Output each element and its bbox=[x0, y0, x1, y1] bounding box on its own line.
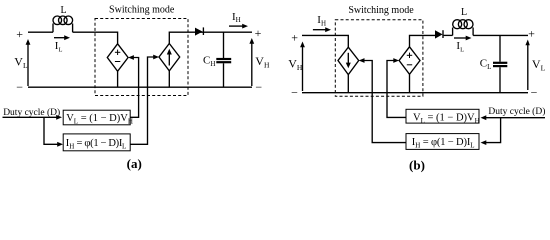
svg-text:(a): (a) bbox=[127, 156, 142, 171]
capacitor CL (b) bbox=[499, 35, 501, 61]
duty cycle feed wire (a) bbox=[3, 116, 59, 118]
svg-text:+: + bbox=[528, 26, 535, 40]
svg-text:VL: VL bbox=[532, 57, 546, 73]
capacitor CH (a) bbox=[223, 32, 225, 58]
svg-text:VH: VH bbox=[288, 56, 303, 72]
dependent current source F2 (b) bbox=[338, 47, 359, 74]
svg-text:L: L bbox=[461, 7, 467, 18]
arrow IL (a) bbox=[54, 37, 67, 39]
svg-text:Switching mode: Switching mode bbox=[109, 5, 175, 16]
wire: inductor to diamond E1 top corner bbox=[73, 32, 118, 44]
dependent voltage source E2 (b) bbox=[399, 47, 420, 75]
svg-text:IL: IL bbox=[456, 40, 464, 53]
svg-text:Duty cycle (D): Duty cycle (D) bbox=[3, 107, 60, 118]
wire: (b) top-left rail to diamond F2 bbox=[302, 35, 348, 47]
arrow VL (b) bbox=[527, 43, 529, 90]
svg-text:+: + bbox=[255, 26, 262, 40]
svg-text:IH: IH bbox=[232, 11, 241, 24]
svg-text:IH = φ(1 − D)IL: IH = φ(1 − D)IL bbox=[412, 137, 475, 150]
dashed switching-mode box (b) bbox=[335, 20, 423, 96]
dependent current source F1 (a) bbox=[159, 44, 180, 71]
svg-text:−: − bbox=[291, 86, 298, 100]
arrow IL (b) bbox=[454, 37, 468, 39]
control wire from box IH to F2 (b) bbox=[362, 61, 406, 143]
svg-text:VL = (1 − D)VH: VL = (1 − D)VH bbox=[66, 113, 133, 126]
wire: diamond E2 top stub, top wire to diode bbox=[410, 35, 436, 46]
svg-text:+: + bbox=[291, 31, 298, 45]
inductor L (b) bbox=[453, 20, 474, 36]
wire: (a) bottom rail bbox=[28, 86, 252, 88]
svg-text:+: + bbox=[16, 27, 23, 41]
arrow IH (a) bbox=[229, 25, 245, 27]
svg-text:IH: IH bbox=[317, 14, 326, 27]
arrow VH (a) bbox=[251, 42, 253, 87]
svg-text:IH = φ(1 − D)IL: IH = φ(1 − D)IL bbox=[66, 138, 127, 151]
arrow VL (a) bbox=[27, 43, 29, 87]
equation box IH (a) bbox=[63, 134, 130, 151]
svg-text:−: − bbox=[255, 80, 262, 94]
diode D1 (a) bbox=[195, 28, 203, 36]
wire: diode to inductor bbox=[444, 34, 453, 36]
duty cycle feed wire (b) bbox=[484, 117, 545, 119]
wire: diamond F2 bottom stub bbox=[347, 75, 349, 93]
equation box VL (a) bbox=[63, 110, 130, 125]
svg-text:L: L bbox=[60, 5, 66, 16]
diode D2 (b) bbox=[435, 30, 443, 38]
wire: (a) top-left rail to inductor bbox=[28, 31, 53, 33]
arrow VH (b) bbox=[302, 45, 304, 91]
svg-text:VL = (1 − D)VH: VL = (1 − D)VH bbox=[413, 112, 480, 125]
wire: (b) bottom rail bbox=[302, 92, 528, 94]
svg-text:−: − bbox=[531, 85, 538, 99]
svg-text:−: − bbox=[16, 80, 23, 94]
control wire from box VL to E2 (b) bbox=[387, 61, 406, 118]
wire: inductor to (b) right rail bbox=[473, 34, 528, 36]
wire: diamond E2 bottom stub bbox=[409, 74, 411, 92]
equation box VL (b) bbox=[406, 109, 479, 123]
wire: diamond F1 bottom stub bbox=[168, 71, 170, 87]
svg-text:VH: VH bbox=[255, 54, 270, 70]
svg-text:VL: VL bbox=[14, 54, 28, 70]
control wire from box IH to F1 (a) bbox=[130, 57, 155, 144]
arrow IH (b) bbox=[313, 29, 328, 31]
svg-text:Duty cycle (D): Duty cycle (D) bbox=[488, 106, 545, 117]
control wire from box VL=(1-D)VH to E1 (a) bbox=[130, 58, 139, 118]
svg-text:CL: CL bbox=[480, 58, 492, 72]
svg-text:IL: IL bbox=[55, 40, 63, 53]
dependent voltage source E1 (a) bbox=[107, 44, 128, 72]
svg-text:(b): (b) bbox=[409, 158, 425, 173]
svg-text:CH: CH bbox=[203, 54, 215, 68]
equation box IH (b) bbox=[406, 134, 479, 150]
dashed switching-mode box (a) bbox=[95, 19, 188, 96]
wire: diamond F1 top stub and top wire to output bbox=[169, 32, 252, 43]
inductor L (a) bbox=[53, 16, 73, 32]
svg-text:Switching mode: Switching mode bbox=[348, 5, 414, 16]
wire: diamond E1 bottom stub bbox=[117, 71, 119, 87]
